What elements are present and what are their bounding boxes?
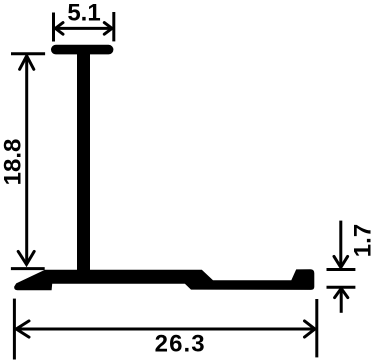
extension line right of 5.1 [112,12,115,41]
profile cap (top T flange) [51,45,113,55]
arrowhead down of 18.8 [18,251,34,264]
dimension line 18.8 [25,57,28,264]
tick bottom of 18.8 [11,267,45,270]
leader arrow up of 1.7 [335,288,348,297]
svg-text:5.1: 5.1 [67,0,100,27]
tick top of 18.8 [11,52,45,55]
dimension 1.7 group [327,221,356,313]
tick upper of 1.7 [327,268,356,271]
arrowhead up of 18.8 [20,56,34,70]
dimension line 5.1 [55,27,112,30]
dimension 5.1 group [54,12,114,42]
extension line left of 26.3 [13,299,16,360]
profile base (bottom rail with left hook and right lip) [14,269,314,290]
dimension 26.3 group [14,299,316,360]
extension line right of 26.3 [315,299,318,357]
arrowhead left of 5.1 [55,23,63,35]
tick lower of 1.7 [327,286,356,289]
arrowhead right of 26.3 [305,321,315,337]
svg-text:1.7: 1.7 [349,224,374,257]
svg-text:18.8: 18.8 [0,139,26,186]
profile stem (vertical web) [77,50,90,272]
dimension line 26.3 [16,328,315,331]
arrowhead left of 26.3 [16,321,29,337]
svg-text:26.3: 26.3 [155,331,206,358]
arrowhead right of 5.1 [104,23,112,35]
leader arrow down of 1.7 [339,221,342,266]
extension line left of 5.1 [52,13,55,42]
dimension 18.8 group [11,54,45,269]
